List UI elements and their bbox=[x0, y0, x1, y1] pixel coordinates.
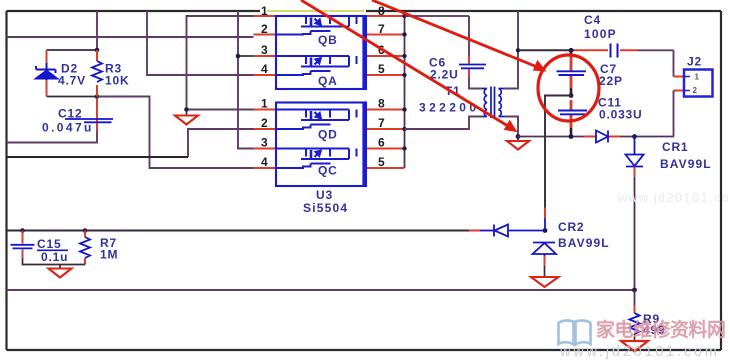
node C7 mid junction bbox=[569, 93, 574, 98]
ground GND5 bbox=[49, 265, 72, 278]
annotation arrow A bbox=[301, 0, 517, 132]
diode CR1 series bbox=[596, 131, 608, 143]
wire bottom rail y289 bbox=[7, 289, 635, 291]
diode CR2 series bbox=[480, 225, 544, 237]
wire D2/R3 loop bottom bbox=[47, 96, 98, 98]
svg-text:4: 4 bbox=[261, 155, 268, 169]
wire chip left pin stubs bottom box bbox=[254, 110, 277, 169]
svg-text:4: 4 bbox=[261, 62, 268, 76]
wire CR2 riser blue bbox=[544, 218, 546, 231]
node ground2 junction bbox=[516, 134, 521, 139]
node ground1 junction bbox=[184, 107, 189, 112]
wire rail branch at x518 bbox=[517, 11, 519, 50]
svg-text:J2: J2 bbox=[687, 55, 702, 69]
svg-text:0.1u: 0.1u bbox=[41, 250, 68, 264]
ground GND3 bbox=[531, 277, 559, 287]
capacitor C6 stubs bbox=[468, 56, 470, 77]
diode CR1 lower stub bbox=[634, 167, 636, 177]
diode CR2 series stub bbox=[469, 230, 480, 232]
svg-text:1: 1 bbox=[261, 97, 268, 111]
wire pin1 top to ground riser bbox=[187, 16, 254, 110]
wire pin2 bottom routing bbox=[188, 129, 254, 157]
svg-text:8: 8 bbox=[378, 97, 385, 111]
transistor QA bbox=[276, 56, 357, 75]
svg-text:10K: 10K bbox=[105, 74, 129, 88]
wire J2 pin1 riser bbox=[673, 50, 675, 76]
wire chip left pin stubs top box bbox=[254, 16, 277, 75]
watermark book icon bbox=[559, 321, 591, 345]
svg-text:QD: QD bbox=[318, 128, 338, 142]
svg-text:2: 2 bbox=[693, 86, 698, 95]
node CR2 junction bbox=[543, 228, 548, 233]
capacitor C11 bbox=[558, 111, 587, 115]
diode CR2 shunt bbox=[533, 243, 557, 257]
svg-text:www.jd20101.com: www.jd20101.com bbox=[617, 191, 730, 205]
svg-text:BAV99L: BAV99L bbox=[558, 236, 610, 250]
svg-text:2: 2 bbox=[261, 116, 268, 130]
ground GND1 bbox=[175, 110, 198, 125]
capacitor C12 bbox=[65, 119, 113, 122]
wire secondary top to node A bbox=[504, 50, 518, 88]
annotation ellipse bbox=[538, 55, 599, 121]
capacitor C7 red stubs bbox=[570, 55, 572, 128]
svg-text:0.047u: 0.047u bbox=[42, 121, 94, 135]
wire R9 to ground bbox=[634, 334, 636, 341]
svg-text:BAV99L: BAV99L bbox=[660, 157, 712, 171]
svg-text:5: 5 bbox=[378, 62, 385, 76]
capacitor C6 bbox=[459, 65, 486, 69]
IC U3 bottom box bbox=[276, 103, 366, 187]
zener D2 bbox=[35, 63, 59, 80]
wire y157 to left border bbox=[7, 156, 189, 158]
transistor QC bbox=[276, 149, 357, 169]
diode CR1 shunt bbox=[626, 137, 644, 167]
svg-text:4.7V: 4.7V bbox=[58, 74, 86, 88]
svg-text:Si5504: Si5504 bbox=[303, 201, 348, 215]
wire C6 to primary top bbox=[469, 77, 482, 89]
node CR1 junction bbox=[632, 134, 637, 139]
svg-text:5: 5 bbox=[378, 155, 385, 169]
svg-text:22P: 22P bbox=[599, 74, 623, 88]
node C15 junction bbox=[20, 228, 25, 233]
wire C6 vertical top bbox=[468, 16, 470, 56]
svg-text:7: 7 bbox=[378, 116, 385, 130]
svg-text:QA: QA bbox=[318, 74, 338, 88]
svg-text:CR2: CR2 bbox=[558, 220, 584, 234]
node x518 junction bbox=[516, 48, 520, 52]
transformer core bbox=[491, 87, 495, 119]
node bus dots bbox=[402, 14, 406, 151]
zener D2 pin stubs bbox=[46, 50, 48, 97]
capacitor C4 leads bbox=[574, 49, 608, 51]
svg-text:QB: QB bbox=[318, 33, 338, 47]
wire right bus x405 bbox=[404, 16, 406, 168]
resistor R9 bbox=[630, 313, 640, 334]
wire rail y230 from border bbox=[7, 230, 470, 232]
ground GND2 bbox=[507, 137, 529, 150]
ground GND4 bbox=[621, 341, 648, 352]
wire CR1 to bottom rail bbox=[634, 177, 636, 290]
svg-text:C4: C4 bbox=[584, 13, 601, 27]
wire node A horizontal bbox=[518, 49, 574, 51]
diode CR2 lower stub bbox=[544, 256, 546, 266]
capacitor C7 chain vertical bbox=[570, 50, 573, 136]
wire pin8 row extension to C6 bbox=[405, 15, 470, 17]
svg-text:3: 3 bbox=[261, 136, 268, 150]
inductor L1 secondary winding bbox=[499, 89, 505, 117]
svg-text:家电维修资料网: 家电维修资料网 bbox=[596, 318, 726, 341]
svg-text:C12: C12 bbox=[58, 107, 82, 121]
resistor R3 bbox=[92, 61, 102, 82]
wire C7 mid tap bbox=[545, 96, 571, 211]
svg-text:1: 1 bbox=[695, 73, 700, 82]
transistor QD bbox=[276, 110, 357, 130]
svg-text:2.2U: 2.2U bbox=[430, 68, 459, 82]
capacitor C15 stubs bbox=[22, 231, 24, 259]
wire J2 pin2 riser bbox=[673, 91, 675, 137]
svg-text:QC: QC bbox=[318, 164, 338, 178]
node R7 junction bbox=[83, 228, 88, 233]
node A dot bbox=[569, 48, 574, 53]
svg-text:1M: 1M bbox=[100, 248, 118, 262]
capacitor C7 bbox=[557, 71, 587, 75]
wire chip right pin stubs top box bbox=[366, 16, 405, 75]
wire V1 rail to top box pin4 bbox=[147, 11, 254, 75]
wire J2 pin2 stub bbox=[674, 90, 685, 92]
node C12 top junction bbox=[95, 94, 100, 99]
svg-text:2: 2 bbox=[261, 22, 268, 36]
annotation arrow B bbox=[372, 0, 546, 71]
diode CR1 series stubs bbox=[584, 136, 620, 138]
svg-text:0.033U: 0.033U bbox=[599, 108, 643, 122]
node C11 bottom junction bbox=[569, 134, 574, 139]
wire main bottom y136 bbox=[518, 136, 674, 138]
node R9 junction bbox=[632, 288, 637, 293]
inductor L1 primary winding bbox=[482, 89, 487, 117]
svg-text:CR1: CR1 bbox=[662, 140, 688, 154]
svg-text:7: 7 bbox=[378, 22, 385, 36]
capacitor C4 bbox=[611, 44, 618, 58]
wire net A : loop bottom right to bottom box pin4 bbox=[97, 97, 254, 169]
svg-text:www.jd20101.com: www.jd20101.com bbox=[559, 344, 720, 360]
wire chip right pin stubs bottom box bbox=[366, 110, 405, 169]
wire D2 branch from top rail bbox=[96, 11, 98, 50]
svg-text:U3: U3 bbox=[316, 188, 333, 202]
wire pin3 top tap bbox=[238, 55, 254, 57]
svg-text:6: 6 bbox=[378, 136, 385, 150]
capacitor C12 stubs bbox=[96, 99, 98, 131]
wire CR2 riser red stub bbox=[544, 208, 546, 219]
svg-text:3: 3 bbox=[261, 43, 268, 57]
wire C12 bottom to left border bbox=[7, 131, 98, 143]
node pin3 tap junction bbox=[236, 54, 241, 59]
wire primary bottom to bus bbox=[405, 117, 483, 130]
svg-text:100P: 100P bbox=[584, 27, 617, 41]
transistor QB bbox=[276, 16, 357, 35]
svg-text:C15: C15 bbox=[37, 237, 61, 251]
wire J2 pin1 stub bbox=[674, 76, 685, 78]
resistor R7 bbox=[80, 237, 90, 258]
wire D2/R3 loop top bbox=[47, 49, 98, 51]
IC U3 top box bbox=[276, 16, 366, 89]
capacitor C15 bbox=[11, 245, 35, 249]
resistor R7 stubs bbox=[84, 231, 86, 265]
resistor R9 stubs bbox=[634, 290, 636, 305]
wire V3 rail to pin3 rows bbox=[238, 11, 254, 149]
resistor R3 pin stubs bbox=[96, 50, 98, 97]
node D2 loop top junction bbox=[95, 48, 100, 53]
connector J2 bbox=[684, 70, 713, 97]
wire pin2 top row from left border bbox=[7, 36, 254, 38]
svg-text:1: 1 bbox=[261, 4, 268, 18]
wire secondary bottom to ground junction bbox=[504, 117, 518, 137]
wire C15 R7 bottom loop bbox=[23, 258, 86, 265]
wire top rail yellow segment bbox=[267, 10, 364, 12]
